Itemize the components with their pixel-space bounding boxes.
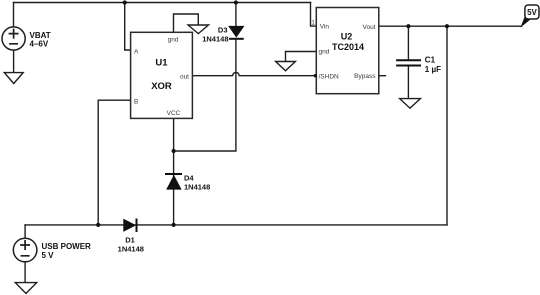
ground arrow U2 gnd (276, 62, 296, 71)
node junction top rail A (123, 0, 127, 4)
svg-text:1 µF: 1 µF (425, 65, 441, 74)
svg-text:D4: D4 (184, 174, 194, 183)
source VBAT (2, 27, 51, 50)
wire out to /SHDN with hop (192, 72, 316, 75)
wire B branch (98, 100, 130, 225)
capacitor C1 (396, 56, 441, 74)
svg-text:1N4148: 1N4148 (118, 244, 144, 253)
svg-text:U1: U1 (155, 57, 168, 68)
svg-text:4–6V: 4–6V (30, 39, 49, 48)
diode D4 1N4148 (165, 174, 210, 192)
svg-text:1N4148: 1N4148 (184, 182, 210, 191)
wire C1 bottom stem (407, 65, 409, 98)
svg-text:D1: D1 (125, 236, 135, 245)
svg-text:U2: U2 (341, 32, 353, 42)
wire USB stem up (24, 225, 26, 238)
ground VBAT (4, 73, 23, 84)
node junction Vout riser (445, 24, 449, 28)
node junction Vout C1 (406, 24, 410, 28)
ground C1 (400, 99, 421, 109)
wire VBAT stem up (13, 3, 15, 27)
wire Vin bend (311, 3, 317, 27)
diode D1 1N4148 (118, 219, 144, 254)
svg-text:out: out (180, 73, 189, 80)
svg-text:TC2014: TC2014 (332, 42, 364, 52)
wire D3 top stem (235, 3, 237, 27)
wire U2 gnd to arrow (286, 52, 317, 62)
svg-text:Bypass: Bypass (354, 73, 376, 80)
node junction D4 rail (172, 223, 176, 227)
node junction B rail (96, 223, 100, 227)
svg-text:5 V: 5 V (42, 251, 55, 260)
wire Vout to 5V tag (379, 25, 522, 27)
op-amp U1 XOR (131, 32, 193, 118)
svg-text:A: A (134, 48, 139, 55)
wire USB to ground (24, 262, 26, 282)
svg-text:B: B (134, 99, 138, 106)
svg-text:5V: 5V (527, 8, 537, 17)
svg-text:1N4148: 1N4148 (202, 34, 228, 43)
wire VBAT to ground (13, 50, 15, 72)
net tag 5V (522, 5, 539, 26)
svg-text:Vout: Vout (362, 24, 375, 31)
svg-text:XOR: XOR (151, 81, 172, 92)
wire VCC / D4 stem (173, 118, 175, 224)
svg-text:/SHDN: /SHDN (319, 74, 340, 81)
svg-text:gnd: gnd (168, 37, 179, 44)
node junction top rail D3 (234, 0, 238, 4)
wire U1 gnd to arrow (174, 14, 199, 32)
svg-text:VCC: VCC (167, 110, 181, 117)
source USB POWER (13, 238, 91, 262)
wire right riser (446, 26, 448, 225)
ground USB (15, 283, 36, 294)
svg-text:gnd: gnd (319, 49, 330, 56)
svg-text:Vin: Vin (320, 24, 330, 31)
svg-text:D3: D3 (218, 26, 228, 35)
wire top rail VBAT to Vin (14, 2, 311, 4)
svg-text:1: 1 (311, 19, 315, 26)
diode D3 1N4148 (202, 26, 243, 44)
ground arrow U1 gnd (188, 25, 208, 34)
svg-text:C1: C1 (425, 56, 436, 65)
wire C1 top stem (407, 26, 409, 60)
wire D3 bottom to VCC net (174, 39, 236, 151)
wire A branch (125, 3, 131, 51)
node junction D3-D4 (172, 149, 176, 153)
wire Bypass stub (379, 75, 386, 77)
regulator U2 TC2014 (311, 8, 379, 94)
node /SHDN pin dot (314, 74, 317, 77)
wire bottom rail (25, 224, 447, 226)
